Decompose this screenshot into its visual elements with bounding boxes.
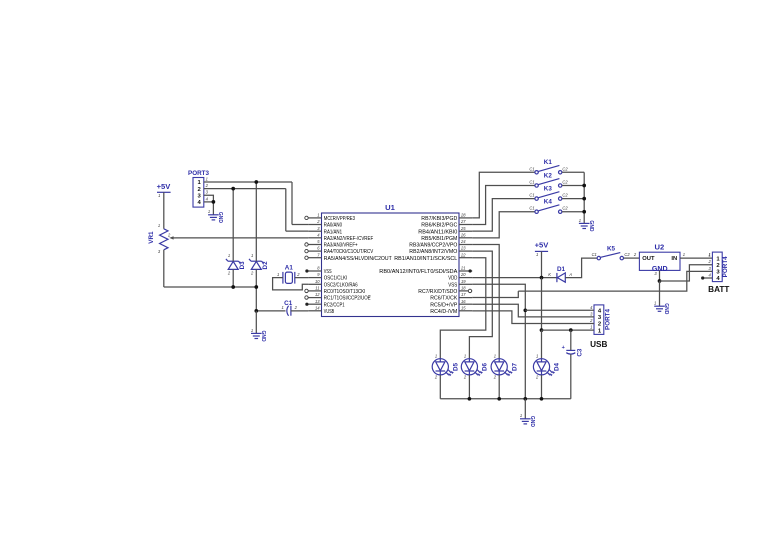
U1 pin 8 (VSS) [308,270,321,272]
ground GND (below PORT3) [208,215,219,220]
junction RA1 net / D3 [231,187,235,191]
svg-text:D3: D3 [239,261,246,270]
junction bus / K2 [582,184,586,188]
svg-text:C3: C3 [576,348,583,357]
svg-text:14: 14 [315,305,320,310]
svg-text:RA5/AN4/SS/HLVDIN/C2OUT: RA5/AN4/SS/HLVDIN/C2OUT [324,256,392,262]
svg-text:RC6/TX/CK: RC6/TX/CK [430,296,457,302]
wire A1 right to U1 pin9 OSC1 [295,277,309,279]
svg-text:C2: C2 [624,252,630,257]
IC U1 (PIC18F2550) body [322,213,460,317]
svg-text:1: 1 [536,354,538,359]
svg-text:12: 12 [315,292,320,297]
no-connect circle pin 7 [305,256,308,259]
wire +5V down to VDD net [541,251,543,277]
svg-text:D5: D5 [452,362,459,371]
wire D2 cathode up to RA0 net [255,182,257,261]
svg-text:11: 11 [315,286,319,291]
svg-text:1: 1 [208,209,210,214]
switch K4 [535,205,562,214]
no-connect circle pin 5 [305,243,308,246]
svg-text:RB2/AN8/INT2/VMO: RB2/AN8/INT2/VMO [409,249,457,255]
svg-text:C1: C1 [284,300,293,307]
LED D7 [491,359,513,377]
svg-text:RA4/T0CKI/C1OUT/RCV: RA4/T0CKI/C1OUT/RCV [324,249,373,255]
svg-text:GND: GND [529,416,535,428]
connector PORT4 (USB) body [594,305,604,335]
U1 pin 23 (RB2) [459,250,472,252]
svg-text:C2: C2 [562,180,568,185]
svg-text:USB: USB [590,340,607,349]
svg-text:22: 22 [460,252,466,257]
switch K1 [535,165,562,174]
no-connect circle pin 6 [305,249,308,252]
wire C1 left to ground column [256,310,285,312]
U1 pin 10 (OSC2) [308,283,321,285]
svg-text:VSS: VSS [324,269,332,275]
wire D5 cathode to rail [439,375,441,399]
wire down to ground (left) [255,311,257,333]
wire bottom analog rail [164,286,256,288]
svg-text:24: 24 [460,239,466,244]
wire U1 pin23 RB2 to LED D6 [469,251,492,359]
junction rail / D2 column [254,285,258,289]
wire U2 GND pin down [659,270,661,281]
U1 pin 25 (RB4) [459,230,472,232]
junction rail / D4 [540,397,544,401]
wire LED ground rail [440,398,571,400]
U1 pin 3 (RA1) [308,230,321,232]
svg-text:20: 20 [460,272,466,277]
wire C1 right to U1 pin14 VUSB [291,310,309,312]
svg-text:VSS: VSS [448,282,457,288]
U1 pin 28 (RB7) [459,217,472,219]
wire U2 IN to BATT pin1 [680,257,712,259]
svg-text:D6: D6 [482,362,489,371]
svg-text:GND: GND [260,330,266,342]
wire PORT3 pin2 to RA1 net (horiz) [204,188,286,190]
U1 pin 19 (VSS) [459,283,472,285]
junction C1 / ground column [254,309,258,313]
switch K2 [535,179,562,188]
svg-text:D2: D2 [262,261,269,270]
wire PORT3 pin4 down to ground [212,202,214,215]
ground GND (below U2) [654,306,665,311]
svg-text:A1: A1 [285,265,294,272]
junction bus / K4 [582,210,586,214]
wire VSS to USB pin4 [525,309,594,311]
wire +5V column down to VBUS [541,278,543,330]
connector PORT3 body [193,178,204,208]
junction rail / VSS column [523,397,527,401]
svg-text:10: 10 [315,279,320,284]
connector PORT4 (BATT) body [712,252,722,282]
svg-text:D7: D7 [511,362,518,371]
svg-text:RA3/AN3/VREF+: RA3/AN3/VREF+ [324,243,358,249]
svg-text:1: 1 [251,328,253,333]
junction PORT3 pin3/pin4 [212,200,216,204]
junction rail / D3 [231,285,235,289]
svg-text:K3: K3 [544,186,553,193]
wire K4 to ground bus [562,211,584,213]
wire BATT pin4 stub [702,277,712,279]
wire C3 bottom to rail [570,354,572,399]
svg-text:27: 27 [460,219,466,224]
svg-text:1: 1 [158,193,160,198]
svg-text:1: 1 [520,413,522,418]
wire U1 pin19 VSS down to LED rail [472,284,525,399]
svg-text:C1: C1 [592,252,597,257]
junction rail / D7 [497,397,501,401]
zener diode D2 [249,259,264,270]
wire K3 to ground bus [562,198,584,200]
LED D4 [533,359,555,377]
svg-text:U1: U1 [385,203,395,212]
no-connect circle pin 18 [468,289,471,292]
VR1 wiper arrow [171,237,175,239]
svg-text:C2: C2 [562,193,568,198]
U1 pin 13 (RC2) [308,303,321,305]
svg-text:C1: C1 [529,193,534,198]
U1 pin 15 (RC4) [459,310,472,312]
U1 pin 2 (RA0) [308,224,321,226]
junction VBUS / D4 column [540,328,544,332]
wire D7 cathode to rail [498,375,500,399]
U1 pin 4 (RA2) [308,237,321,239]
junction U2 GND / BATT pin2 net [658,279,662,283]
no-connect circle pin 1 [305,216,308,219]
wire U1 pin 26 to switch K4 [472,212,535,238]
wire U1 pin 25 to switch K3 [472,199,535,232]
svg-text:PORT4: PORT4 [722,256,729,277]
svg-text:1: 1 [317,213,319,218]
junction VBUS / C3 [569,328,573,332]
wire K2 to ground bus [562,185,584,187]
svg-text:1: 1 [464,354,466,359]
wire U1 pin15 RC4/D- to USB pin2 [472,311,594,324]
junction VSS / USB pin4 branch [523,308,527,312]
svg-text:RC5/D+/VP: RC5/D+/VP [430,302,457,308]
wire VBUS down to LED D4 [541,330,543,359]
svg-text:VUSB: VUSB [324,309,334,315]
wire VR1 wiper to U1 pin4 RA2 [176,237,309,239]
svg-text:GND: GND [663,303,669,315]
wire PORT3 pin1 to RA0 net (horiz) [204,181,292,183]
svg-text:+5V: +5V [157,182,172,191]
U1 pin 27 (RB6) [459,224,472,226]
svg-text:+: + [562,345,565,351]
wire VBUS to USB pin1 [542,329,595,331]
wire-end marker pin 13 [305,303,308,306]
U1 pin 18 (RC7) [459,290,472,292]
U1 pin 5 (RA3) [308,244,321,246]
wire U1 pin16 RC5/D+ to USB pin3 [472,304,594,317]
svg-text:25: 25 [460,226,466,231]
svg-text:1: 1 [654,301,656,306]
junction RA0 net / D2 [254,180,258,184]
wire U1 pin17 RC6 up [472,291,518,297]
svg-text:1: 1 [277,272,279,277]
svg-text:GND: GND [588,220,594,232]
svg-text:RA1/AN1: RA1/AN1 [324,229,342,235]
U1 pin 14 (VUSB) [308,310,321,312]
svg-text:D1: D1 [557,266,566,273]
svg-text:RB6/KBI2/PGC: RB6/KBI2/PGC [421,223,458,229]
svg-text:C2: C2 [562,206,568,211]
wire D1 to switch K5 [565,258,597,278]
LED D5 [432,359,454,377]
wire U1 pin20 VDD to D1 [472,277,556,279]
wire +5V to VR1 top [163,192,165,229]
LED D6 [461,359,483,377]
svg-text:16: 16 [461,299,466,304]
U1 pin 6 (RA4) [308,250,321,252]
svg-text:1: 1 [494,354,496,359]
wire-end marker pin 8 [305,269,308,272]
wire U1 pin 27 to switch K2 [472,186,535,225]
U1 pin 11 (RC0) [308,290,321,292]
wire A1 left around to U1 pin10 OSC2 [273,278,309,290]
svg-text:26: 26 [460,232,466,237]
svg-text:1: 1 [579,218,581,223]
svg-text:28: 28 [460,213,466,218]
svg-text:K4: K4 [544,199,553,206]
wire PORT3 pin3 to pin4 [204,195,214,202]
svg-text:VR1: VR1 [148,231,155,244]
svg-text:RC2/CCP1: RC2/CCP1 [324,302,345,308]
svg-text:K: K [548,272,551,277]
svg-text:17: 17 [461,292,466,297]
svg-text:VDD: VDD [448,276,457,282]
U1 pin 20 (VDD) [459,277,472,279]
svg-text:RC0/T1OSO/T13CKI: RC0/T1OSO/T13CKI [324,289,366,295]
junction bus / K3 [582,197,586,201]
svg-text:19: 19 [461,279,466,284]
svg-text:1: 1 [709,253,711,258]
no-connect circle pin 11 [305,289,308,292]
svg-text:23: 23 [460,246,466,251]
svg-text:OSC1/CLKI: OSC1/CLKI [324,276,348,282]
wire C3 top [570,330,572,350]
svg-text:RB4/AN11/KBI0: RB4/AN11/KBI0 [418,229,458,235]
svg-text:MCLR/VPP/RE3: MCLR/VPP/RE3 [324,216,356,222]
svg-text:+5V: +5V [535,240,550,249]
svg-text:1: 1 [251,253,253,258]
wire RA0 net (vert) [291,182,293,225]
svg-text:1: 1 [536,252,538,257]
U1 pin 21 (RB0) [459,270,472,272]
svg-text:OUT: OUT [642,256,655,262]
svg-text:1: 1 [590,325,592,330]
wire D4 cathode to rail [541,375,543,399]
wire-end marker BATT pin4 [701,276,704,279]
svg-text:C1: C1 [529,166,534,171]
svg-text:RB5/KBI1/PGM: RB5/KBI1/PGM [421,236,457,242]
wire RA1 net (vert) [285,189,287,232]
svg-text:GND: GND [217,212,223,224]
svg-text:1: 1 [683,252,685,257]
wire into U1 pin3 [286,230,309,232]
svg-text:1: 1 [206,176,208,181]
U1 pin 7 (RA5) [308,257,321,259]
svg-text:13: 13 [315,299,320,304]
svg-text:A: A [568,272,572,277]
svg-text:PORT4: PORT4 [604,309,611,330]
svg-text:1: 1 [282,305,284,310]
svg-text:15: 15 [461,305,466,310]
wire D3 cathode up to RA1 net [232,189,234,262]
zener diode D3 [226,259,241,270]
switch K3 [535,192,562,201]
U1 pin 24 (RB3) [459,244,472,246]
wire into U1 pin2 [292,224,308,226]
no-connect circle pin 12 [305,296,308,299]
svg-text:RB7/KBI3/PGD: RB7/KBI3/PGD [421,216,457,222]
junction rail / D6 [468,397,472,401]
U1 pin 16 (RC5) [459,303,472,305]
svg-text:RC4/D-/VM: RC4/D-/VM [430,309,457,315]
diode D1 [557,273,565,282]
wire rail to bottom ground [524,399,526,419]
wire D6 cathode to rail [468,375,470,399]
ground GND (below switches) [579,223,590,228]
switch K5 [597,253,623,260]
svg-text:RC1/T1OSI/CCP2/UOE: RC1/T1OSI/CCP2/UOE [324,296,371,302]
svg-text:OSC2/CLKO/RA6: OSC2/CLKO/RA6 [324,282,358,288]
svg-text:BATT: BATT [708,285,729,294]
svg-text:C2: C2 [562,166,568,171]
wire U1 pin 28 to switch K1 [472,172,535,218]
wire D2 anode down to C1 junction [255,269,257,311]
svg-text:18: 18 [461,286,466,291]
svg-text:C1: C1 [529,206,534,211]
svg-text:1: 1 [228,253,230,258]
U1 pin 26 (RB5) [459,237,472,239]
svg-text:RB0/AN12/INT0/FLT0/SDI/SDA: RB0/AN12/INT0/FLT0/SDI/SDA [379,269,457,275]
svg-text:RA2/AN2/VREF-/CVREF: RA2/AN2/VREF-/CVREF [324,236,374,242]
crystal A1 [283,272,295,284]
svg-text:RB1/AN10/INT1/SCK/SCL: RB1/AN10/INT1/SCK/SCL [394,256,458,262]
ground GND (below D2 column) [251,333,262,338]
wire switch ground bus [583,172,585,223]
svg-text:K5: K5 [607,245,616,252]
wire PORT3 pin4 stub [204,201,214,203]
svg-text:RB3/AN9/CCP2/VPO: RB3/AN9/CCP2/VPO [409,243,457,249]
svg-text:RC7/RX/DT/SDO: RC7/RX/DT/SDO [418,289,457,295]
wire-end marker pin 21 [469,269,472,272]
capacitor C1 [287,306,291,316]
wire VR1 bottom down [163,250,165,287]
capacitor C3 [566,350,575,354]
svg-text:K2: K2 [544,172,553,179]
U1 pin 22 (RB1) [459,257,472,259]
svg-text:IN: IN [671,256,677,262]
wire D3 anode down to rail [232,269,234,287]
regulator U2 body [639,252,680,270]
wire K1 to ground bus [562,171,584,173]
wire ground net to BATT pin2 [660,265,713,281]
U1 pin 12 (RC1) [308,297,321,299]
U1 pin 9 (OSC1) [308,277,321,279]
wire U1 pin24 RB3 to LED D7 [472,244,499,358]
svg-text:D4: D4 [554,362,561,371]
svg-text:21: 21 [460,266,466,271]
ground GND (bottom) [520,419,531,424]
svg-text:RA0/AN0: RA0/AN0 [324,223,343,229]
U1 pin 1 (MCLR) [308,217,321,219]
svg-text:C1: C1 [529,180,534,185]
wire K5 to U2 OUT [624,257,640,259]
svg-text:K1: K1 [544,159,553,166]
svg-text:U2: U2 [655,242,665,251]
svg-text:1: 1 [158,223,160,228]
wire U2 GND to ground [659,281,661,306]
wire RC6 net to BATT pin3 [518,271,712,291]
wire U1 pin22 RB1 to LED D5 [440,258,486,359]
U1 pin 17 (RC6) [459,297,472,299]
svg-text:1: 1 [435,354,437,359]
potentiometer VR1 [160,229,168,250]
junction VDD / +5V column [540,276,544,280]
